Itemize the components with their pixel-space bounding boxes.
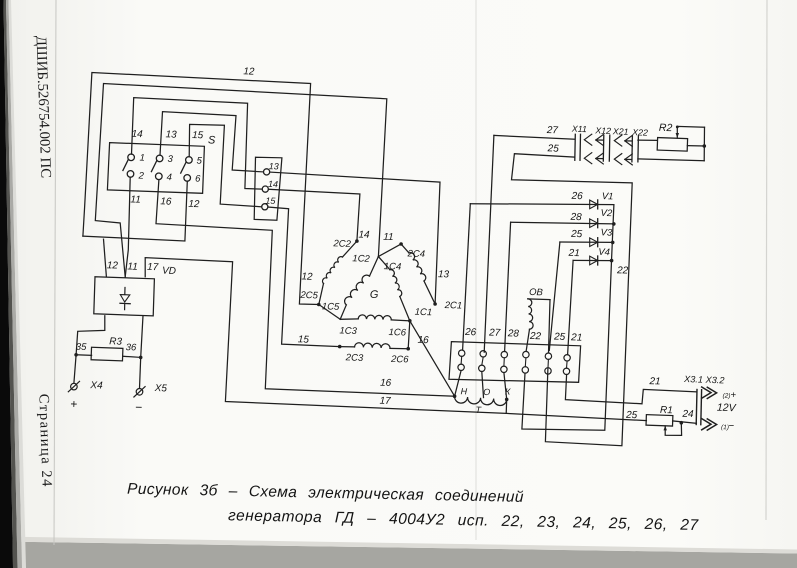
svg-text:16: 16: [417, 335, 429, 346]
svg-text:−: −: [728, 421, 734, 432]
svg-text:X12: X12: [594, 125, 611, 136]
svg-text:22: 22: [616, 265, 629, 276]
svg-text:12V: 12V: [717, 402, 737, 415]
svg-text:X22: X22: [631, 127, 648, 138]
svg-text:11: 11: [383, 232, 394, 243]
svg-text:V3: V3: [600, 227, 613, 238]
svg-text:−: −: [135, 400, 142, 414]
svg-text:15: 15: [265, 196, 276, 206]
svg-text:Х3.1 Х3.2: Х3.1 Х3.2: [683, 374, 725, 385]
svg-text:21: 21: [567, 248, 580, 259]
svg-text:1С2: 1С2: [352, 253, 371, 265]
svg-text:2С6: 2С6: [390, 354, 410, 366]
svg-text:11: 11: [127, 261, 138, 272]
svg-text:4: 4: [166, 172, 172, 183]
svg-text:S: S: [208, 134, 216, 146]
svg-text:1: 1: [139, 153, 145, 164]
svg-text:16: 16: [380, 378, 392, 389]
svg-text:25: 25: [625, 410, 638, 421]
svg-text:21: 21: [648, 376, 661, 387]
svg-text:+: +: [70, 397, 77, 411]
svg-text:14: 14: [358, 230, 370, 241]
svg-text:22: 22: [529, 331, 542, 342]
svg-text:2С1: 2С1: [443, 300, 462, 312]
svg-text:G: G: [370, 289, 379, 301]
svg-text:V1: V1: [602, 191, 614, 202]
svg-text:17: 17: [147, 262, 159, 273]
svg-text:36: 36: [126, 342, 138, 353]
svg-text:1С3: 1С3: [339, 325, 358, 337]
svg-text:28: 28: [507, 328, 520, 339]
svg-text:35: 35: [76, 342, 88, 353]
svg-text:X21: X21: [612, 126, 629, 137]
svg-text:24: 24: [681, 409, 694, 420]
svg-text:28: 28: [569, 212, 582, 223]
svg-text:ОВ: ОВ: [529, 287, 544, 298]
svg-text:13: 13: [438, 269, 450, 280]
svg-text:2С3: 2С3: [345, 352, 365, 364]
svg-text:17: 17: [379, 396, 391, 407]
svg-text:X11: X11: [571, 124, 587, 135]
svg-text:Н: Н: [460, 386, 467, 396]
svg-text:25: 25: [570, 229, 583, 240]
svg-text:R1: R1: [660, 405, 673, 416]
svg-text:26: 26: [464, 327, 477, 338]
svg-text:15: 15: [192, 130, 204, 141]
svg-text:12: 12: [301, 271, 313, 282]
svg-text:Страница 24: Страница 24: [35, 394, 54, 489]
svg-text:1С1: 1С1: [414, 307, 432, 319]
svg-text:21: 21: [570, 332, 583, 343]
svg-text:2С2: 2С2: [332, 238, 352, 250]
svg-text:+: +: [730, 390, 736, 401]
svg-text:14: 14: [131, 129, 143, 140]
svg-text:13: 13: [165, 129, 177, 140]
svg-text:R2: R2: [659, 122, 673, 134]
svg-text:V4: V4: [598, 247, 610, 258]
svg-text:15: 15: [298, 334, 310, 345]
svg-text:О: О: [483, 387, 490, 397]
svg-text:(2): (2): [722, 393, 730, 400]
svg-text:12: 12: [107, 260, 119, 271]
svg-text:12: 12: [188, 199, 200, 210]
svg-text:2: 2: [137, 170, 144, 181]
svg-text:25: 25: [546, 143, 559, 154]
svg-text:12: 12: [243, 66, 255, 77]
svg-text:1С6: 1С6: [388, 327, 407, 339]
svg-text:X4: X4: [89, 380, 103, 391]
svg-text:VD: VD: [162, 266, 176, 277]
svg-text:1С5: 1С5: [322, 301, 341, 313]
svg-text:27: 27: [546, 125, 559, 136]
svg-text:26: 26: [570, 191, 583, 202]
svg-text:X5: X5: [153, 383, 167, 394]
svg-text:16: 16: [160, 196, 172, 207]
svg-text:27: 27: [488, 327, 501, 338]
svg-text:2С4: 2С4: [406, 248, 425, 260]
svg-text:V2: V2: [600, 208, 613, 219]
svg-text:R3: R3: [109, 336, 123, 347]
svg-text:2С5: 2С5: [299, 290, 319, 302]
svg-text:14: 14: [268, 179, 278, 189]
svg-text:13: 13: [269, 161, 279, 171]
svg-text:1С4: 1С4: [384, 261, 402, 273]
svg-text:11: 11: [130, 194, 141, 205]
svg-text:25: 25: [553, 331, 566, 342]
